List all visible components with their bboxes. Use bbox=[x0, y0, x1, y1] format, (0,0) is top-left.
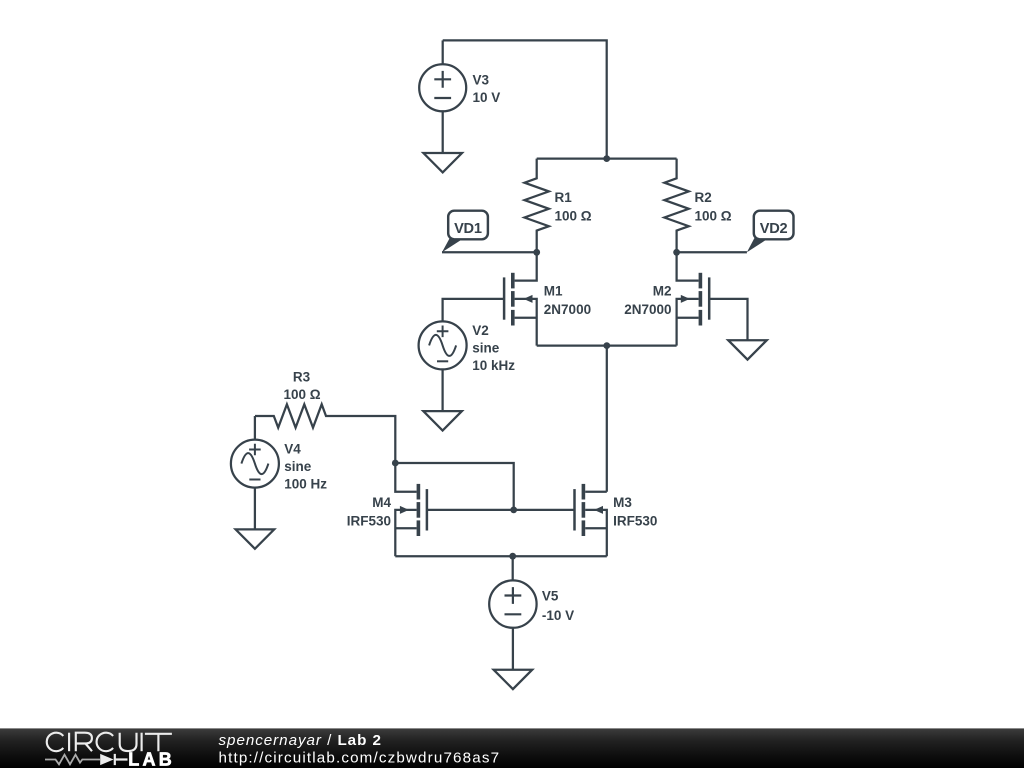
svg-text:V5: V5 bbox=[542, 589, 559, 604]
svg-text:VD2: VD2 bbox=[760, 221, 788, 237]
svg-text:V2: V2 bbox=[472, 323, 489, 338]
CircuitLab logo LAB text bbox=[128, 750, 175, 768]
label V2 value bbox=[472, 323, 515, 373]
svg-text:R2: R2 bbox=[695, 190, 712, 205]
node R1 bottom bbox=[533, 249, 540, 256]
wire tail current source drop bbox=[606, 346, 608, 492]
svg-text:R1: R1 bbox=[555, 190, 573, 205]
svg-text:M1: M1 bbox=[544, 284, 563, 299]
svg-text:100 Ω: 100 Ω bbox=[695, 208, 732, 223]
flag VD1 bbox=[442, 211, 488, 253]
voltage source V2 sine bbox=[419, 321, 467, 369]
flag VD2 bbox=[747, 211, 794, 253]
resistor R3 bbox=[255, 404, 395, 463]
wire M2 gate to ground bbox=[709, 299, 747, 340]
wire mirror gate tie bbox=[395, 463, 513, 510]
svg-text:IRF530: IRF530 bbox=[613, 513, 657, 528]
svg-text:10 V: 10 V bbox=[473, 90, 501, 105]
svg-text:100 Hz: 100 Hz bbox=[284, 477, 327, 492]
label R1 value bbox=[555, 190, 592, 223]
CircuitLab logo resistor-diode squiggle bbox=[45, 754, 128, 765]
node common source bbox=[603, 342, 610, 349]
label V5 value bbox=[542, 589, 574, 624]
ground below V5 bbox=[494, 670, 533, 689]
node bottom rail V5 bbox=[509, 553, 516, 560]
transistor M2 bbox=[677, 252, 710, 345]
svg-text:2N7000: 2N7000 bbox=[624, 302, 671, 317]
svg-text:M2: M2 bbox=[653, 284, 672, 299]
wire V2 to M1 gate bbox=[443, 299, 505, 321]
wire V5 top lead bbox=[512, 556, 514, 580]
svg-text:IRF530: IRF530 bbox=[347, 513, 391, 528]
voltage source V3 bbox=[419, 64, 466, 111]
label M1 bbox=[544, 284, 591, 317]
label M2 bbox=[624, 284, 671, 317]
svg-text:100 Ω: 100 Ω bbox=[555, 208, 592, 223]
node junction top rail bbox=[603, 155, 610, 162]
svg-text:spencernayar / Lab 2: spencernayar / Lab 2 bbox=[219, 732, 382, 749]
svg-text:M3: M3 bbox=[613, 495, 632, 510]
svg-text:10 kHz: 10 kHz bbox=[472, 358, 515, 373]
wire V5 bottom lead bbox=[512, 628, 514, 670]
svg-text:100 Ω: 100 Ω bbox=[283, 387, 320, 402]
transistor M1 bbox=[504, 252, 537, 345]
label M4 bbox=[347, 495, 392, 528]
wire bottom rail sources bbox=[395, 555, 607, 557]
ground below V3 bbox=[423, 153, 462, 172]
svg-text:http://circuitlab.com/czbwdru7: http://circuitlab.com/czbwdru768as7 bbox=[219, 750, 501, 767]
svg-text:-10 V: -10 V bbox=[542, 608, 574, 623]
wire VD1 tap bbox=[442, 251, 537, 253]
label R3 value bbox=[283, 369, 320, 402]
node R2 bottom bbox=[673, 249, 680, 256]
footer bar bbox=[0, 728, 1024, 768]
CircuitLab logo wordmark CIRCUIT bbox=[47, 733, 172, 752]
svg-text:R3: R3 bbox=[293, 369, 311, 384]
footer attribution line bbox=[219, 732, 501, 767]
transistor M4 bbox=[395, 463, 427, 556]
label V3 value bbox=[473, 72, 501, 105]
label M3 bbox=[613, 495, 657, 528]
resistor R2 bbox=[664, 159, 688, 253]
svg-text:VD1: VD1 bbox=[454, 221, 482, 237]
wire V3 bottom lead bbox=[442, 111, 444, 153]
wire common sources M1 M2 bbox=[537, 344, 677, 346]
svg-text:LAB: LAB bbox=[128, 750, 175, 768]
wire VD2 tap bbox=[677, 251, 747, 253]
ground M2 gate bbox=[728, 340, 767, 359]
voltage source V4 sine bbox=[231, 416, 279, 488]
svg-text:sine: sine bbox=[472, 341, 500, 356]
wire V2 bottom lead bbox=[441, 369, 443, 411]
wire rail R1-R2 tops bbox=[537, 157, 677, 159]
resistor R1 bbox=[525, 159, 549, 253]
node mirror gates bbox=[510, 507, 517, 514]
wire top rail V3 to R1/R2 column bbox=[443, 40, 607, 158]
svg-text:V4: V4 bbox=[284, 441, 301, 456]
voltage source V5 bbox=[489, 580, 536, 627]
svg-text:2N7000: 2N7000 bbox=[544, 302, 591, 317]
node R3 M4 drain bbox=[392, 460, 399, 467]
transistor M3 bbox=[575, 484, 607, 556]
wire V4 bottom lead bbox=[254, 488, 256, 530]
wire M3 gate lead bbox=[514, 509, 575, 511]
label V4 value bbox=[284, 441, 327, 491]
svg-text:M4: M4 bbox=[372, 495, 391, 510]
wire M4 gate lead bbox=[427, 509, 514, 511]
wire V3 top lead bbox=[442, 40, 444, 64]
label R2 value bbox=[695, 190, 732, 223]
svg-text:sine: sine bbox=[284, 459, 312, 474]
ground below V4 bbox=[236, 529, 275, 548]
ground below V2 bbox=[423, 411, 462, 430]
svg-text:V3: V3 bbox=[473, 72, 490, 87]
